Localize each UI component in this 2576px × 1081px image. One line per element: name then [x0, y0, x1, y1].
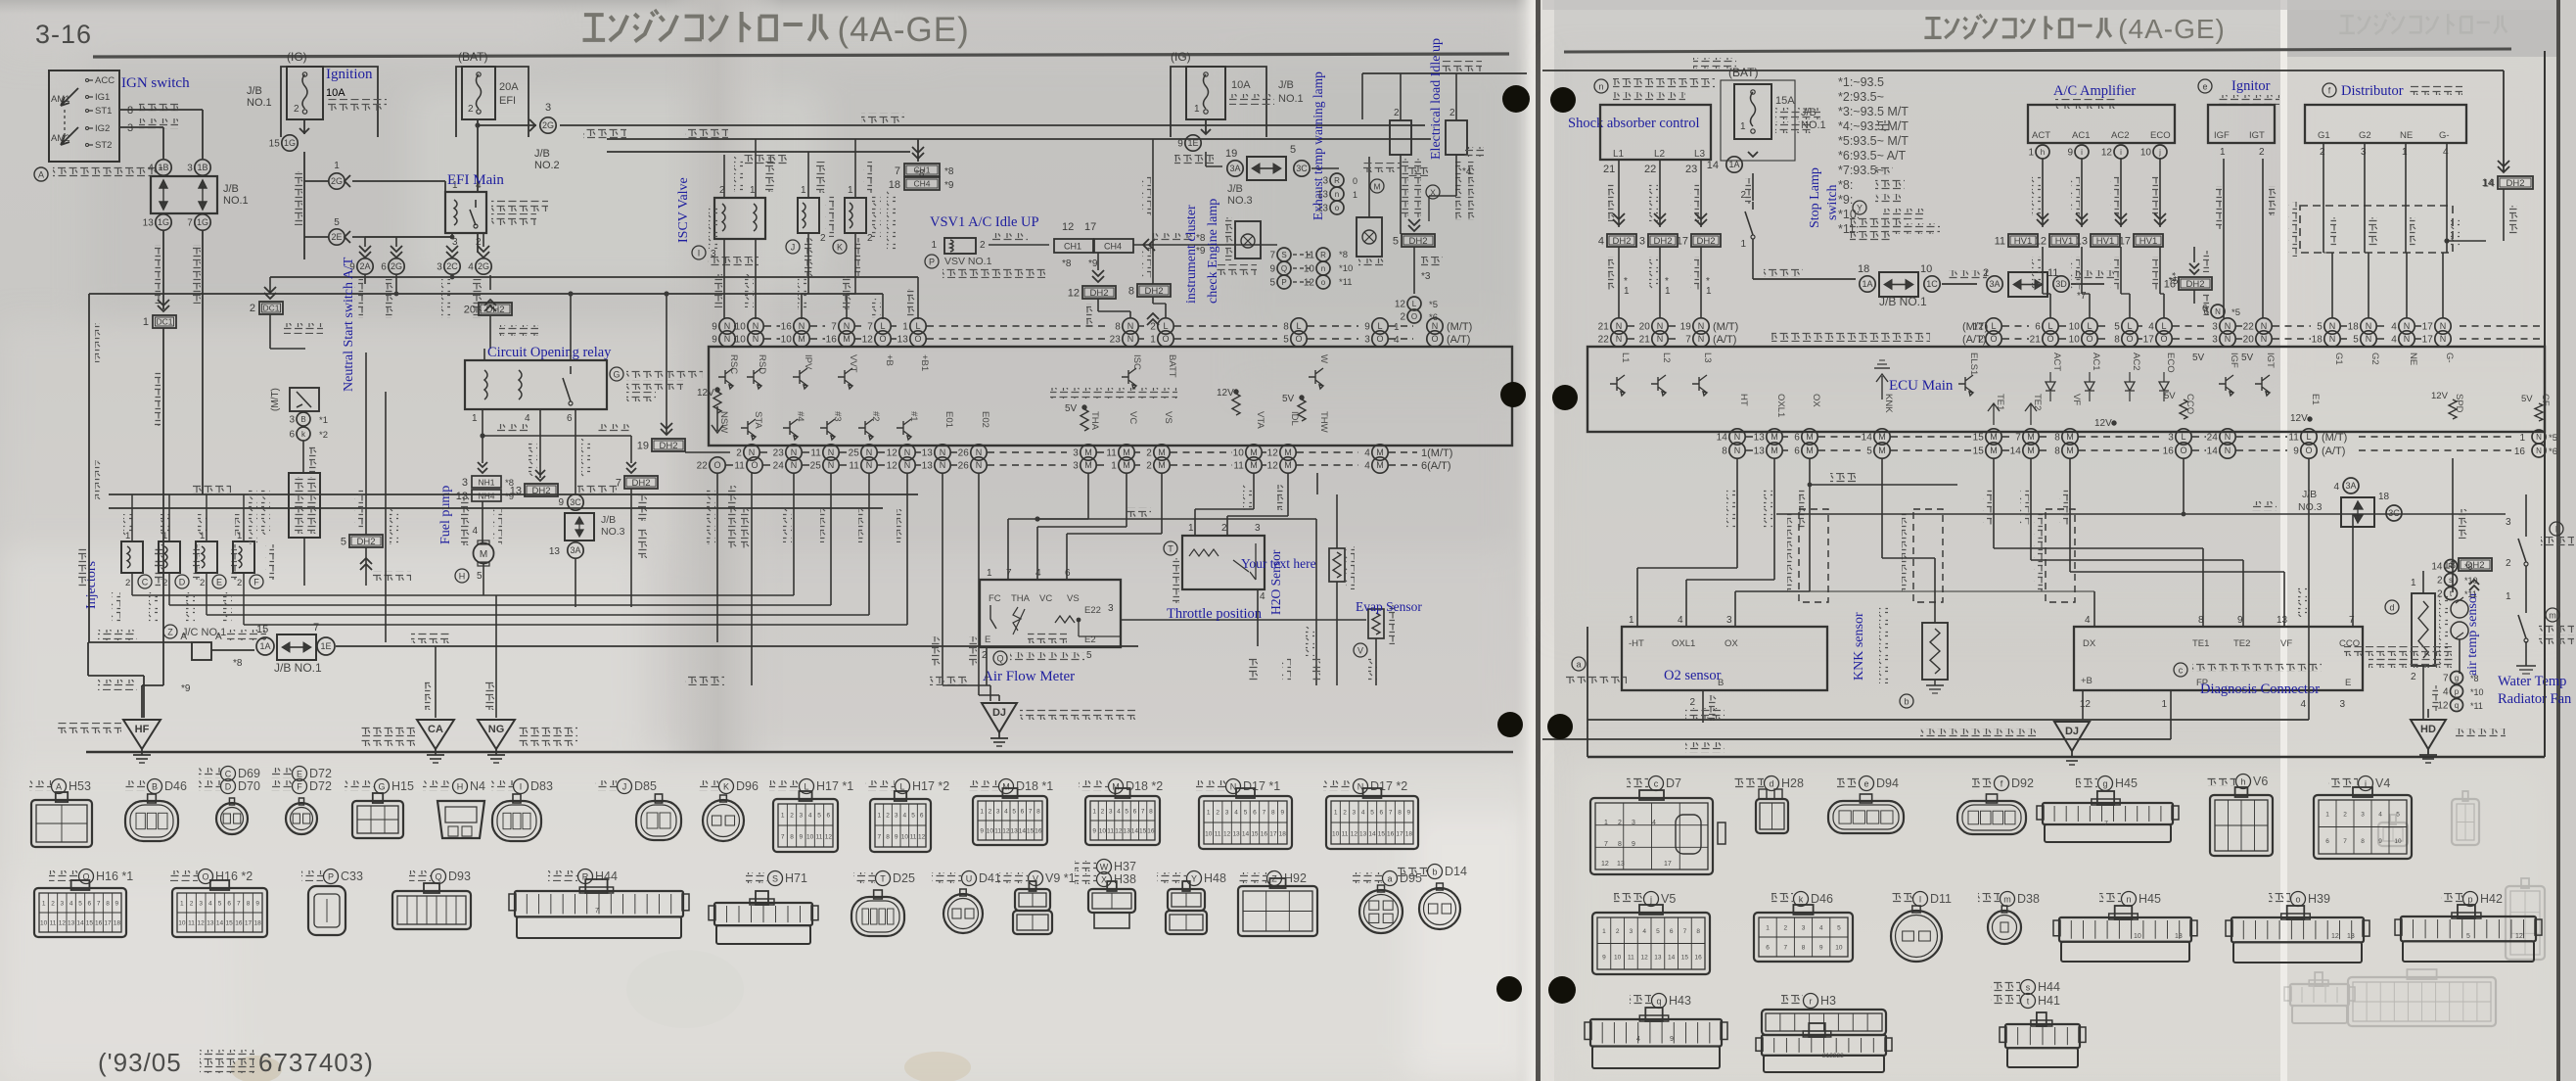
svg-text:TE2: TE2	[2032, 394, 2043, 410]
svg-text:M: M	[1284, 447, 1292, 457]
svg-text:5: 5	[1012, 809, 1016, 816]
svg-text:+B: +B	[2081, 676, 2093, 686]
svg-text:2: 2	[2506, 558, 2511, 569]
connector 1B pins	[156, 160, 171, 175]
svg-text:10: 10	[1099, 828, 1107, 835]
svg-text:23: 23	[1110, 335, 1122, 346]
svg-text:H44: H44	[595, 869, 618, 883]
svg-text:3: 3	[895, 813, 898, 820]
svg-text:3C: 3C	[570, 497, 581, 507]
svg-text:2: 2	[2259, 147, 2265, 158]
svg-text:D18 *1: D18 *1	[1016, 779, 1053, 793]
svg-text:1: 1	[1706, 286, 1712, 297]
svg-text:15: 15	[256, 624, 268, 635]
svg-text:3D: 3D	[2055, 279, 2067, 289]
svg-text:G: G	[378, 782, 385, 792]
wire DC1-2 down	[269, 314, 271, 349]
svg-text:N: N	[791, 460, 798, 470]
diagnosis designator	[2174, 663, 2187, 677]
connector Z H92	[1237, 872, 1266, 883]
TE wires down	[1993, 458, 1995, 548]
svg-text:4: 4	[2378, 811, 2382, 818]
svg-text:NO.3: NO.3	[1227, 195, 1253, 207]
svg-text:10: 10	[1205, 831, 1213, 838]
svg-text:20: 20	[2243, 335, 2255, 346]
svg-text:T: T	[1168, 544, 1173, 554]
svg-text:M: M	[798, 334, 805, 344]
svg-text:M: M	[1990, 432, 1998, 442]
svg-text:18: 18	[2378, 492, 2390, 502]
svg-text:11: 11	[994, 828, 1001, 835]
white-black branch to HF	[87, 642, 89, 676]
svg-text:FC: FC	[989, 593, 1001, 604]
svg-text:*9: *9	[181, 683, 191, 694]
left page bottom rule	[86, 751, 1513, 754]
wire akakii top	[1362, 72, 1527, 74]
svg-text:5: 5	[334, 217, 340, 228]
bottom wires right page	[1587, 719, 2309, 721]
svg-text:2: 2	[1400, 312, 1405, 323]
svg-text:AC2: AC2	[2131, 352, 2141, 370]
svg-text:8: 8	[2114, 335, 2120, 346]
svg-text:9: 9	[1632, 841, 1635, 848]
svg-text:1B: 1B	[197, 163, 207, 172]
svg-text:O: O	[914, 334, 921, 344]
svg-text:W: W	[1100, 863, 1109, 872]
svg-text:2: 2	[1394, 108, 1400, 118]
svg-text:D: D	[225, 782, 232, 792]
svg-text:DX: DX	[2083, 638, 2096, 649]
svg-text:N: N	[1616, 334, 1623, 344]
svg-text:N: N	[1698, 334, 1705, 344]
svg-text:3: 3	[1630, 928, 1633, 935]
svg-text:5: 5	[1656, 928, 1660, 935]
white-black vertical wire	[385, 392, 387, 642]
svg-text:3A: 3A	[1229, 164, 1240, 173]
svg-text:IGF: IGF	[2214, 130, 2230, 141]
svg-text:4: 4	[1234, 810, 1238, 817]
+B wires	[882, 294, 884, 319]
svg-text:5V: 5V	[2192, 352, 2205, 363]
svg-text:11: 11	[2288, 433, 2299, 444]
svg-text:3: 3	[1639, 236, 1645, 248]
svg-text:7: 7	[1683, 928, 1687, 935]
svg-text:*8: *8	[2464, 562, 2473, 572]
svg-text:2G: 2G	[391, 261, 402, 271]
connector Y H48	[1157, 872, 1186, 883]
THW wire	[1316, 473, 1318, 494]
svg-text:*4:~93.5 M/T: *4:~93.5 M/T	[1838, 119, 1909, 133]
svg-text:9: 9	[1819, 945, 1823, 952]
svg-text:17: 17	[1084, 221, 1096, 233]
svg-text:13: 13	[897, 335, 909, 346]
HD ground	[2427, 709, 2429, 718]
svg-text:C: C	[142, 578, 149, 587]
svg-text:18: 18	[1405, 831, 1413, 838]
svg-text:7: 7	[2104, 821, 2108, 827]
svg-text:12V: 12V	[2431, 391, 2449, 401]
connector Q D93	[409, 870, 431, 881]
svg-text:1: 1	[1665, 286, 1671, 297]
svg-text:M: M	[1158, 460, 1166, 470]
svg-text:*5: *5	[2549, 433, 2557, 444]
long wire 2G across page	[560, 124, 1425, 126]
svg-text:5: 5	[1866, 446, 1872, 457]
svg-text:2: 2	[468, 104, 474, 115]
svg-text:23: 23	[1685, 164, 1697, 175]
svg-text:(4A-GE): (4A-GE)	[837, 11, 969, 49]
svg-text:7: 7	[97, 901, 101, 908]
connector P C33	[301, 870, 323, 881]
svg-text:21: 21	[1603, 164, 1615, 175]
svg-text:H53: H53	[69, 779, 91, 793]
svg-text:(M/T): (M/T)	[2322, 432, 2347, 444]
svg-text:10: 10	[1304, 264, 1315, 275]
svg-text:U: U	[966, 874, 973, 884]
svg-text:D72: D72	[309, 779, 332, 793]
svg-text:8: 8	[1618, 841, 1622, 848]
svg-text:7: 7	[2349, 615, 2355, 626]
svg-text:5: 5	[1283, 335, 1289, 346]
svg-text:N: N	[1698, 321, 1705, 331]
svg-text:9: 9	[712, 335, 717, 346]
exhaust temp lamp box	[1357, 217, 1382, 257]
svg-text:12V: 12V	[2094, 418, 2112, 429]
svg-text:H92: H92	[1284, 871, 1307, 885]
svg-text:1: 1	[42, 901, 46, 908]
right ECU internals	[1610, 375, 1625, 396]
svg-text:R: R	[1334, 176, 1340, 185]
svg-text:11: 11	[1305, 251, 1315, 261]
connector q H43	[1630, 995, 1651, 1006]
svg-text:7: 7	[1604, 841, 1608, 848]
svg-text:n: n	[1321, 264, 1325, 273]
svg-text:1: 1	[1740, 121, 1746, 132]
svg-text:2: 2	[1146, 448, 1152, 459]
svg-text:j: j	[1649, 895, 1652, 905]
svg-text:D14: D14	[1445, 865, 1467, 878]
svg-text:DJ: DJ	[2065, 726, 2079, 737]
svg-text:2: 2	[190, 901, 194, 908]
svg-text:8: 8	[1128, 286, 1134, 298]
svg-text:N: N	[1657, 321, 1664, 331]
svg-text:8: 8	[1271, 810, 1275, 817]
svg-text:L: L	[2047, 321, 2052, 331]
svg-text:HF: HF	[135, 724, 150, 735]
svg-text:KNK sensor: KNK sensor	[1852, 612, 1866, 681]
svg-text:9: 9	[2067, 148, 2073, 159]
connector S H71	[746, 872, 767, 883]
STA wire down	[751, 473, 753, 685]
junction block J/B NO.1	[151, 176, 217, 213]
ignitor wires	[2223, 159, 2225, 318]
svg-text:N: N	[1734, 446, 1741, 455]
svg-text:4: 4	[1035, 568, 1041, 579]
svg-text:10A: 10A	[326, 87, 345, 99]
svg-text:1: 1	[1207, 810, 1211, 817]
check engine lamp	[1235, 221, 1261, 258]
svg-text:L: L	[1991, 321, 1996, 331]
svg-text:4: 4	[1004, 809, 1008, 816]
AC amplifier box	[2028, 105, 2175, 143]
svg-text:4: 4	[1361, 810, 1365, 817]
svg-text:*5: *5	[2231, 307, 2240, 318]
3D output wire	[2071, 283, 2104, 285]
svg-text:18: 18	[254, 920, 262, 927]
svg-text:S: S	[772, 874, 778, 884]
svg-text:M: M	[1771, 446, 1778, 455]
svg-text:*8: *8	[944, 166, 954, 177]
wire 1E to 3A	[1205, 152, 1207, 166]
right bus B row1	[1729, 429, 1745, 445]
svg-text:12: 12	[1601, 861, 1609, 868]
svg-text:22: 22	[1598, 335, 1610, 346]
svg-text:1: 1	[931, 240, 937, 251]
svg-text:15: 15	[1027, 828, 1035, 835]
svg-text:L2: L2	[1654, 149, 1666, 160]
svg-text:M: M	[1878, 432, 1886, 442]
DJ ground	[982, 703, 1017, 732]
svg-text:12: 12	[1304, 278, 1315, 289]
svg-text:1: 1	[2411, 578, 2416, 588]
svg-text:3: 3	[289, 415, 295, 426]
svg-text:6: 6	[2035, 322, 2041, 333]
AFM E2 wires right	[1121, 619, 1366, 621]
svg-text:IGF: IGF	[2229, 352, 2239, 368]
svg-text:D69: D69	[238, 767, 260, 780]
svg-text:5: 5	[341, 537, 346, 548]
svg-text:13: 13	[1124, 828, 1131, 835]
svg-text:17: 17	[1677, 236, 1688, 248]
svg-text:n: n	[1335, 190, 1339, 199]
svg-text:ECO: ECO	[2150, 130, 2171, 141]
svg-text:6: 6	[827, 813, 831, 820]
svg-text:20: 20	[1639, 322, 1651, 333]
svg-text:14: 14	[1707, 160, 1719, 171]
svg-text:Y: Y	[1191, 874, 1197, 884]
svg-text:2: 2	[1449, 108, 1455, 118]
svg-text:DH2: DH2	[631, 478, 650, 489]
svg-text:13: 13	[143, 218, 155, 229]
svg-text:(M/T): (M/T)	[1962, 321, 1988, 333]
svg-text:13: 13	[1232, 831, 1240, 838]
connector b D14	[1398, 866, 1427, 876]
svg-text:N: N	[1734, 432, 1741, 442]
ISCV wires down to ECU	[723, 239, 725, 319]
svg-text:12: 12	[2437, 701, 2449, 712]
svg-text:M: M	[1376, 447, 1384, 457]
svg-text:NH4: NH4	[478, 492, 494, 501]
wire row y700 right	[1257, 588, 1259, 590]
svg-text:8: 8	[886, 834, 890, 841]
svg-text:5: 5	[1370, 810, 1374, 817]
svg-text:15: 15	[1973, 433, 1985, 444]
svg-text:D92: D92	[2011, 776, 2034, 790]
svg-text:*9:: *9:	[1838, 193, 1853, 207]
svg-text:1A: 1A	[1728, 160, 1739, 169]
O2 sensor wires down	[1736, 458, 1738, 568]
svg-text:E02: E02	[980, 411, 990, 428]
svg-text:Q: Q	[996, 654, 1003, 664]
svg-text:L: L	[2306, 432, 2311, 442]
connector 1E	[317, 637, 335, 655]
svg-text:2: 2	[1783, 925, 1787, 932]
svg-text:14: 14	[1862, 433, 1873, 444]
svg-text:N: N	[866, 447, 873, 457]
svg-text:N: N	[2366, 321, 2372, 331]
diode wires	[1400, 73, 1402, 120]
svg-text:9: 9	[2237, 615, 2243, 626]
svg-text:M: M	[1806, 446, 1814, 455]
svg-text:5V: 5V	[2241, 352, 2254, 363]
svg-text:TE2: TE2	[2233, 638, 2250, 649]
svg-text:a: a	[1387, 874, 1392, 884]
svg-text:16: 16	[2164, 279, 2176, 291]
connector m D38	[1978, 893, 2000, 904]
svg-text:J/B: J/B	[1227, 183, 1243, 195]
connector r H3	[1781, 995, 1803, 1006]
right ECU box	[1587, 347, 2545, 432]
svg-text:D18 *2: D18 *2	[1126, 779, 1163, 793]
svg-text:18: 18	[1279, 831, 1287, 838]
svg-text:O: O	[1990, 334, 1997, 344]
svg-text:8: 8	[1283, 322, 1289, 333]
svg-text:*3: *3	[1421, 271, 1431, 282]
svg-text:VF: VF	[2280, 638, 2292, 649]
svg-text:12: 12	[1223, 831, 1231, 838]
svg-text:HV1: HV1	[2014, 236, 2032, 247]
svg-text:1C: 1C	[1926, 279, 1938, 289]
svg-text:BATT: BATT	[1167, 354, 1177, 378]
svg-text:17: 17	[1664, 861, 1672, 868]
DJ ground right	[2054, 722, 2090, 751]
relay top stubs	[483, 349, 485, 360]
svg-text:5: 5	[817, 813, 821, 820]
connector B D46	[125, 780, 147, 791]
connector j V5	[1614, 893, 1643, 904]
svg-text:5V: 5V	[2164, 391, 2176, 401]
junction box A	[192, 642, 211, 660]
svg-text:*11: *11	[2470, 701, 2483, 711]
svg-text:H45: H45	[2115, 776, 2138, 790]
right bus B row2	[1729, 443, 1745, 458]
svg-text:1G: 1G	[284, 138, 296, 148]
shock absorber control box	[1600, 105, 1711, 160]
svg-text:Stop Lamp: Stop Lamp	[1808, 167, 1822, 228]
svg-text:H16 *1: H16 *1	[96, 869, 133, 883]
svg-text:1: 1	[1111, 461, 1117, 472]
svg-text:3A: 3A	[570, 545, 580, 555]
Ignitor label	[2198, 79, 2212, 93]
svg-text:I: I	[2555, 525, 2558, 535]
relay output wires	[477, 233, 479, 253]
svg-text:11: 11	[810, 448, 821, 459]
svg-text:12: 12	[198, 920, 206, 927]
svg-text:5V: 5V	[1065, 403, 1078, 414]
svg-text:6: 6	[1380, 810, 1384, 817]
svg-text:D25: D25	[893, 871, 915, 885]
svg-text:1: 1	[902, 322, 908, 333]
svg-text:J/B: J/B	[1801, 107, 1817, 118]
svg-text:8: 8	[247, 901, 251, 908]
svg-text:5: 5	[477, 571, 483, 582]
connector O H16 star2	[168, 870, 198, 881]
svg-text:5: 5	[2466, 933, 2470, 940]
relay outputs down	[482, 409, 483, 463]
svg-text:Z: Z	[167, 628, 173, 637]
svg-text:16: 16	[1147, 828, 1155, 835]
svg-text:L: L	[880, 321, 885, 331]
wire red-yellow	[1368, 157, 1370, 217]
svg-text:N: N	[828, 447, 835, 457]
svg-text:1: 1	[334, 161, 340, 171]
svg-text:M: M	[1990, 446, 1998, 455]
svg-text:12V: 12V	[1217, 388, 1234, 399]
svg-text:M: M	[1376, 460, 1384, 470]
svg-text:*10: *10	[2464, 576, 2478, 586]
svg-text:E01: E01	[943, 411, 954, 428]
svg-text:2: 2	[1740, 190, 1746, 201]
svg-text:NO.3: NO.3	[2298, 501, 2323, 513]
svg-text:9: 9	[1670, 1036, 1674, 1043]
svg-text:6: 6	[381, 262, 387, 273]
connector NH1 NH4	[478, 468, 487, 473]
svg-text:o: o	[1321, 278, 1326, 287]
svg-text:Radiator Fan: Radiator Fan	[2498, 691, 2572, 707]
svg-text:N: N	[2536, 446, 2542, 455]
svg-text:M: M	[480, 549, 487, 560]
svg-text:X: X	[1101, 875, 1107, 885]
svg-text:6: 6	[88, 901, 92, 908]
svg-text:H41: H41	[2038, 994, 2060, 1008]
svg-text:10: 10	[806, 834, 814, 841]
svg-text:Electrical load Idle up: Electrical load Idle up	[1429, 38, 1444, 160]
svg-text:2: 2	[294, 104, 299, 115]
J/B NO.1 junction	[277, 634, 316, 660]
svg-text:3: 3	[1108, 603, 1114, 614]
svg-text:1: 1	[980, 809, 984, 816]
svg-text:3: 3	[127, 122, 133, 134]
red-yellow wire right page	[1542, 70, 2504, 71]
svg-text:G-: G-	[2444, 352, 2455, 363]
svg-text:8: 8	[1398, 810, 1402, 817]
svg-text:THA: THA	[1089, 411, 1100, 431]
svg-text:L: L	[2181, 432, 2185, 442]
svg-text:6: 6	[920, 813, 924, 820]
wire colour labels under pins	[354, 279, 363, 318]
svg-text:L: L	[2161, 321, 2166, 331]
svg-text:A/C Amplifier: A/C Amplifier	[2053, 83, 2136, 99]
svg-text:e: e	[2202, 82, 2207, 92]
NG ground	[495, 595, 497, 718]
connector M D18 star2	[1079, 780, 1108, 791]
ECU main box left	[709, 347, 1512, 446]
pins 12L 2O	[1407, 297, 1421, 310]
svg-text:5: 5	[78, 901, 82, 908]
svg-text:1: 1	[1766, 925, 1770, 932]
svg-text:Circuit Opening relay: Circuit Opening relay	[487, 345, 612, 360]
svg-text:3: 3	[2339, 699, 2345, 710]
HV1 wires to ECU bus	[2042, 247, 2044, 294]
svg-text:OXL1: OXL1	[1672, 638, 1695, 649]
VSV VVT K	[845, 198, 866, 233]
svg-text:D11: D11	[1930, 892, 1952, 906]
distributor wires	[2323, 143, 2324, 253]
svg-text:2A: 2A	[359, 261, 370, 271]
E01 E02 wires to DJ ground	[942, 473, 943, 685]
svg-text:3: 3	[545, 102, 551, 114]
svg-text:15: 15	[1251, 831, 1259, 838]
